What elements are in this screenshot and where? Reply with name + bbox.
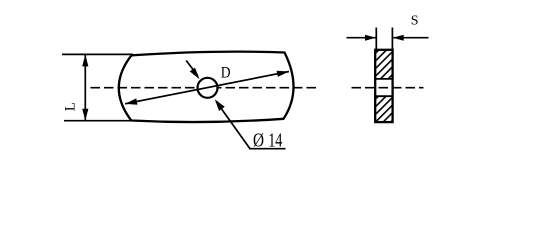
svg-text:14: 14 [268, 129, 282, 151]
svg-text:L: L [63, 102, 79, 111]
svg-text:S: S [411, 14, 419, 29]
svg-text:Ø: Ø [253, 129, 264, 151]
svg-text:D: D [221, 64, 231, 81]
